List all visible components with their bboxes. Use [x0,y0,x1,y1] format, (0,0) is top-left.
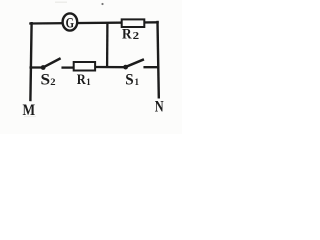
svg-text:S: S [41,71,51,88]
svg-text:S: S [125,71,133,88]
svg-text:1: 1 [86,78,91,88]
svg-text:2: 2 [50,78,56,88]
svg-text:R: R [122,27,132,43]
svg-text:R: R [77,72,87,88]
svg-text:N: N [155,99,164,116]
svg-text:2: 2 [133,31,140,42]
svg-text:1: 1 [135,78,140,88]
svg-text:G: G [66,15,74,31]
